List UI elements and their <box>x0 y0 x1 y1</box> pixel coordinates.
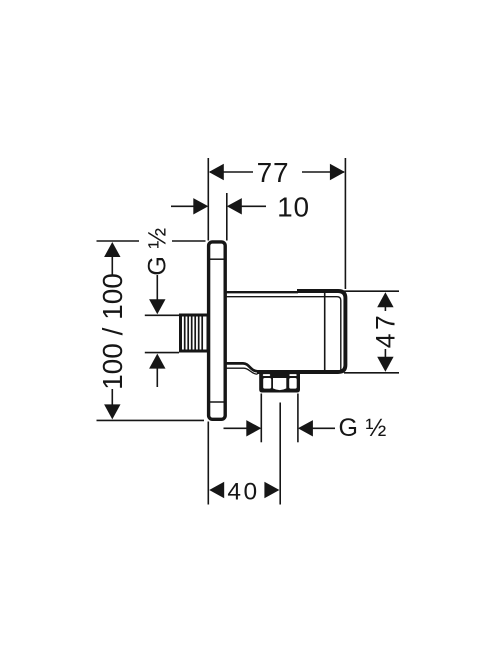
dim 77 arrow right <box>330 164 345 180</box>
dim 47 extension line bottom <box>344 372 399 374</box>
dim 100/100 line lower <box>111 389 113 407</box>
svg-text:G ½: G ½ <box>143 227 171 275</box>
dim G1/2 outlet tail right <box>312 427 335 429</box>
dim 47 arrow up <box>377 292 393 307</box>
dim 40 arrow right (pointing right) <box>264 482 279 498</box>
dim G1/2 outlet arrow left (pointing right) <box>246 420 261 436</box>
svg-text:77: 77 <box>257 157 290 188</box>
dim 47 arrow down <box>377 357 393 372</box>
dim 10 tail left <box>171 205 194 207</box>
dim 10 tail right <box>240 205 266 207</box>
wall thread G1/2 block <box>181 315 209 351</box>
dim 77 line left <box>210 171 253 173</box>
dim G1/2 outlet arrow right (pointing left) <box>298 420 313 436</box>
thread hatch lines <box>185 316 203 350</box>
body inner edge line (top + right) <box>227 297 341 370</box>
dim G1/2 inlet tail upper <box>156 275 158 300</box>
body top thin edge <box>227 291 299 293</box>
dim 77 extension line right <box>344 158 346 289</box>
dim 100/100 bottom extension line <box>97 419 205 421</box>
dim 100/100 top extension line <box>97 240 206 242</box>
body outer thick outline <box>257 291 345 372</box>
dim 10 extension line right <box>226 193 228 241</box>
dim G1/2 inlet arrow down <box>149 299 165 314</box>
plate inner line bottom <box>210 401 225 403</box>
dim 10 arrow right (pointing left) <box>227 198 242 214</box>
dim G1/2 inlet arrow up <box>149 354 165 369</box>
dim G1/2 inlet tail lower <box>156 367 158 387</box>
nut white details <box>263 374 297 390</box>
svg-text:10: 10 <box>277 192 310 223</box>
dim 10 arrow left (pointing right) <box>193 198 208 214</box>
dim G1/2 inlet extension line top <box>145 314 179 316</box>
dim 40 extension line left <box>207 422 209 505</box>
body bottom step upper line <box>227 363 258 371</box>
dim 77 extension line left <box>207 158 209 241</box>
dim 100/100 arrow up <box>104 242 120 257</box>
dim 47 line upper <box>384 306 386 311</box>
dim G1/2 outlet tail left <box>224 427 248 429</box>
svg-text:40: 40 <box>227 478 259 505</box>
svg-text:100 / 100: 100 / 100 <box>97 273 128 390</box>
dim 47 extension line top <box>344 290 399 292</box>
plate inner line top <box>210 258 225 260</box>
body inner vertical line <box>324 293 326 372</box>
knurled nut <box>259 374 300 393</box>
outlet extension line left <box>260 394 262 443</box>
escutcheon plate (side view) <box>209 242 226 419</box>
svg-text:47: 47 <box>370 312 400 348</box>
dim G1/2 inlet extension line bottom <box>145 352 179 354</box>
dim 77 line right <box>302 171 344 173</box>
dim 77 arrow left <box>209 164 224 180</box>
dim 100/100 line upper <box>111 256 113 275</box>
dim 100/100 arrow down <box>104 404 120 419</box>
svg-text:G ½: G ½ <box>339 414 387 442</box>
dim 47 line lower <box>384 349 386 359</box>
outlet centerline <box>279 403 281 505</box>
body bottom step lower thin line <box>227 368 258 374</box>
dim 40 arrow left (pointing left) <box>209 482 224 498</box>
outlet extension line right <box>297 394 299 443</box>
